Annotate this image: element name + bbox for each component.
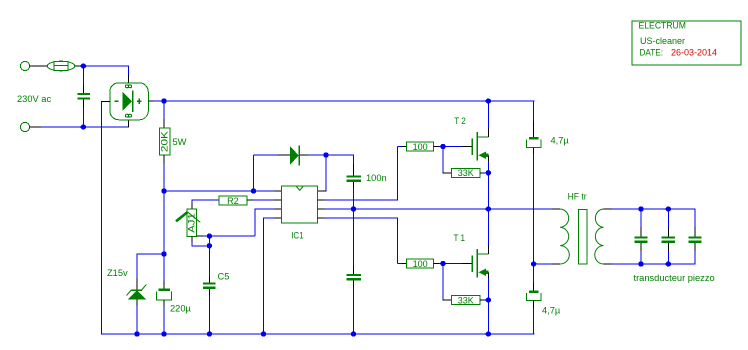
svg-text:33K: 33K <box>458 295 474 305</box>
zener diode Z15v <box>127 284 147 299</box>
wire diode anode riser <box>253 155 255 191</box>
capacitor piezo1 <box>634 209 647 264</box>
transistor T2 (MOSFET) <box>472 132 488 161</box>
wire <box>308 154 354 156</box>
capacitor piezo3 <box>688 236 701 243</box>
terminal J1 (230V top) <box>20 61 29 70</box>
wire T1 drain <box>487 209 489 254</box>
node 20K top <box>161 98 166 103</box>
wire 33K T1 branch <box>442 264 451 301</box>
wire bridge minus stub <box>102 101 110 103</box>
node divider mid / primary bottom <box>531 261 536 266</box>
wire IC pin3L to wiper <box>209 208 281 236</box>
wire <box>41 126 129 128</box>
terminal J2 (230V bottom) <box>20 122 29 131</box>
wire <box>277 154 290 156</box>
svg-text:HF tr: HF tr <box>568 192 587 202</box>
svg-text:4,7µ: 4,7µ <box>551 136 570 146</box>
node piezo2 top <box>666 206 671 211</box>
wire 20K branch <box>163 101 165 128</box>
svg-text:C5: C5 <box>218 272 230 282</box>
resistor 33K (T1) <box>452 295 480 305</box>
node T1 source ground <box>486 331 491 336</box>
wire <box>434 146 473 148</box>
node diode branch <box>251 188 256 193</box>
fuse F1 <box>47 61 74 71</box>
wire 220u feed <box>163 254 165 289</box>
wire <box>30 65 48 67</box>
trimmer AJ1 <box>176 209 200 237</box>
svg-text:100: 100 <box>413 259 428 269</box>
node cap-bottom junction <box>81 124 86 129</box>
svg-text:33K: 33K <box>458 168 474 178</box>
svg-text:220µ: 220µ <box>170 304 192 314</box>
node T1 source-33K <box>486 297 491 302</box>
svg-text:20K: 20K <box>160 131 170 152</box>
wire <box>128 120 130 127</box>
wire Vcc line to IC <box>164 190 275 192</box>
capacitor 4,7u top <box>526 137 541 147</box>
wire <box>353 280 355 334</box>
wire snubber cap branch <box>353 209 355 274</box>
node fuse-cap junction <box>81 63 86 68</box>
wire to C5 <box>208 236 210 282</box>
svg-text:230V ac: 230V ac <box>17 94 51 104</box>
wire T2 drain <box>487 101 489 137</box>
resistor 20K 5W <box>160 128 170 155</box>
node 100n bottom <box>351 206 356 211</box>
resistor R2 <box>219 196 247 206</box>
node C5 ground <box>207 331 212 336</box>
capacitor 100n <box>346 175 361 182</box>
wire <box>480 299 488 301</box>
svg-text:DATE:: DATE: <box>640 48 664 58</box>
wire IC pin1L stub <box>275 190 282 192</box>
wire top +DC rail <box>154 100 535 102</box>
wire <box>208 289 210 334</box>
transformer core <box>578 210 587 265</box>
title block frame <box>632 21 741 65</box>
node bootstrap VB <box>323 152 328 157</box>
wire bottom cap divider <box>533 264 535 291</box>
wire <box>30 126 42 128</box>
wire <box>247 199 282 201</box>
wire <box>75 65 80 67</box>
svg-text:4,7µ: 4,7µ <box>542 306 561 316</box>
node piezo1 top <box>638 206 643 211</box>
capacitor C-input <box>77 66 90 127</box>
capacitor C5 <box>203 282 215 289</box>
wire <box>80 65 130 67</box>
svg-text:AJ1: AJ1 <box>187 213 197 233</box>
op-amp IC1 (driver IC) <box>282 186 318 223</box>
wire <box>254 154 278 156</box>
svg-text:Z15v: Z15v <box>107 268 128 278</box>
svg-text:US-cleaner: US-cleaner <box>640 36 685 46</box>
svg-text:100n: 100n <box>366 173 387 183</box>
svg-text:T 1: T 1 <box>454 233 466 243</box>
node half-bridge midpoint <box>486 206 491 211</box>
wire <box>353 182 355 209</box>
wire minus rail down <box>101 101 103 335</box>
resistor 100 (T2 gate) <box>407 142 434 152</box>
svg-text:transducteur piezzo: transducteur piezzo <box>634 273 715 283</box>
bridge rectifier B1 <box>110 83 149 120</box>
node T2 source-33K <box>486 170 491 175</box>
wire primary bottom <box>534 263 560 265</box>
svg-text:100: 100 <box>413 142 428 152</box>
node zener ground <box>134 331 139 336</box>
node snubber ground <box>351 331 356 336</box>
wire <box>128 75 130 83</box>
wire <box>300 154 308 156</box>
node T2 gate <box>440 144 445 149</box>
wire 100n top <box>353 155 355 175</box>
capacitor C-mid <box>346 274 361 281</box>
wire IC pin4R to T1 gate resistor <box>318 218 407 264</box>
wire 33K T2 branch <box>442 147 451 173</box>
node zener tap <box>161 251 166 256</box>
diode D1 bootstrap <box>290 145 300 165</box>
wire secondary bottom <box>604 243 696 265</box>
wire <box>533 147 535 264</box>
node 220u ground <box>161 331 166 336</box>
wire IC pin4L to ground <box>264 217 282 334</box>
wire IC pin2R to T2 gate resistor <box>318 147 407 201</box>
wire secondary top <box>604 208 696 236</box>
transformer secondary <box>595 209 604 264</box>
svg-text:T 2: T 2 <box>454 116 466 126</box>
wire T2 source <box>487 155 489 209</box>
capacitor piezo2 <box>662 209 675 264</box>
wire <box>136 299 138 334</box>
wire bridge plus stub <box>148 100 153 102</box>
svg-text:5W: 5W <box>173 137 187 147</box>
node AJ1 bottom <box>207 243 212 248</box>
wire <box>434 263 473 265</box>
zener Z15v branch wire <box>137 253 164 290</box>
node Vcc-IC <box>161 188 166 193</box>
wire AJ1 bottom <box>191 237 209 246</box>
wire IC pin1R stub <box>318 190 327 192</box>
svg-text:ELECTRUM: ELECTRUM <box>639 21 687 31</box>
wire AJ1 wiper <box>197 235 210 237</box>
node pin4L ground <box>261 331 266 336</box>
svg-text:R2: R2 <box>227 196 239 206</box>
wire <box>163 300 165 334</box>
svg-text:IC1: IC1 <box>291 230 303 240</box>
capacitor 4,7u bottom <box>526 290 541 300</box>
resistor 100 (T1 gate) <box>407 259 434 269</box>
node T2 drain top <box>486 98 491 103</box>
transistor T1 (MOSFET) <box>472 249 488 278</box>
svg-text:26-03-2014: 26-03-2014 <box>671 48 717 58</box>
wire bottom ground rail <box>101 333 534 335</box>
wire VB riser to pin1R <box>325 155 327 192</box>
wire <box>163 155 165 254</box>
wire T1 source <box>487 272 489 334</box>
wire <box>480 172 488 174</box>
wire IC pin3R / VS midpoint line <box>318 208 561 210</box>
capacitor 220u electrolytic <box>157 288 172 300</box>
wire R2 left / AJ1 top <box>192 199 219 209</box>
transformer HF tr primary <box>560 209 569 264</box>
node wiper <box>207 233 212 238</box>
wire <box>128 65 130 75</box>
wire <box>533 301 535 335</box>
node T1 gate <box>440 261 445 266</box>
resistor 33K (T2) <box>452 168 480 178</box>
node piezo2 bottom <box>666 261 671 266</box>
wire top cap divider <box>533 100 535 137</box>
node piezo1 bottom <box>638 261 643 266</box>
